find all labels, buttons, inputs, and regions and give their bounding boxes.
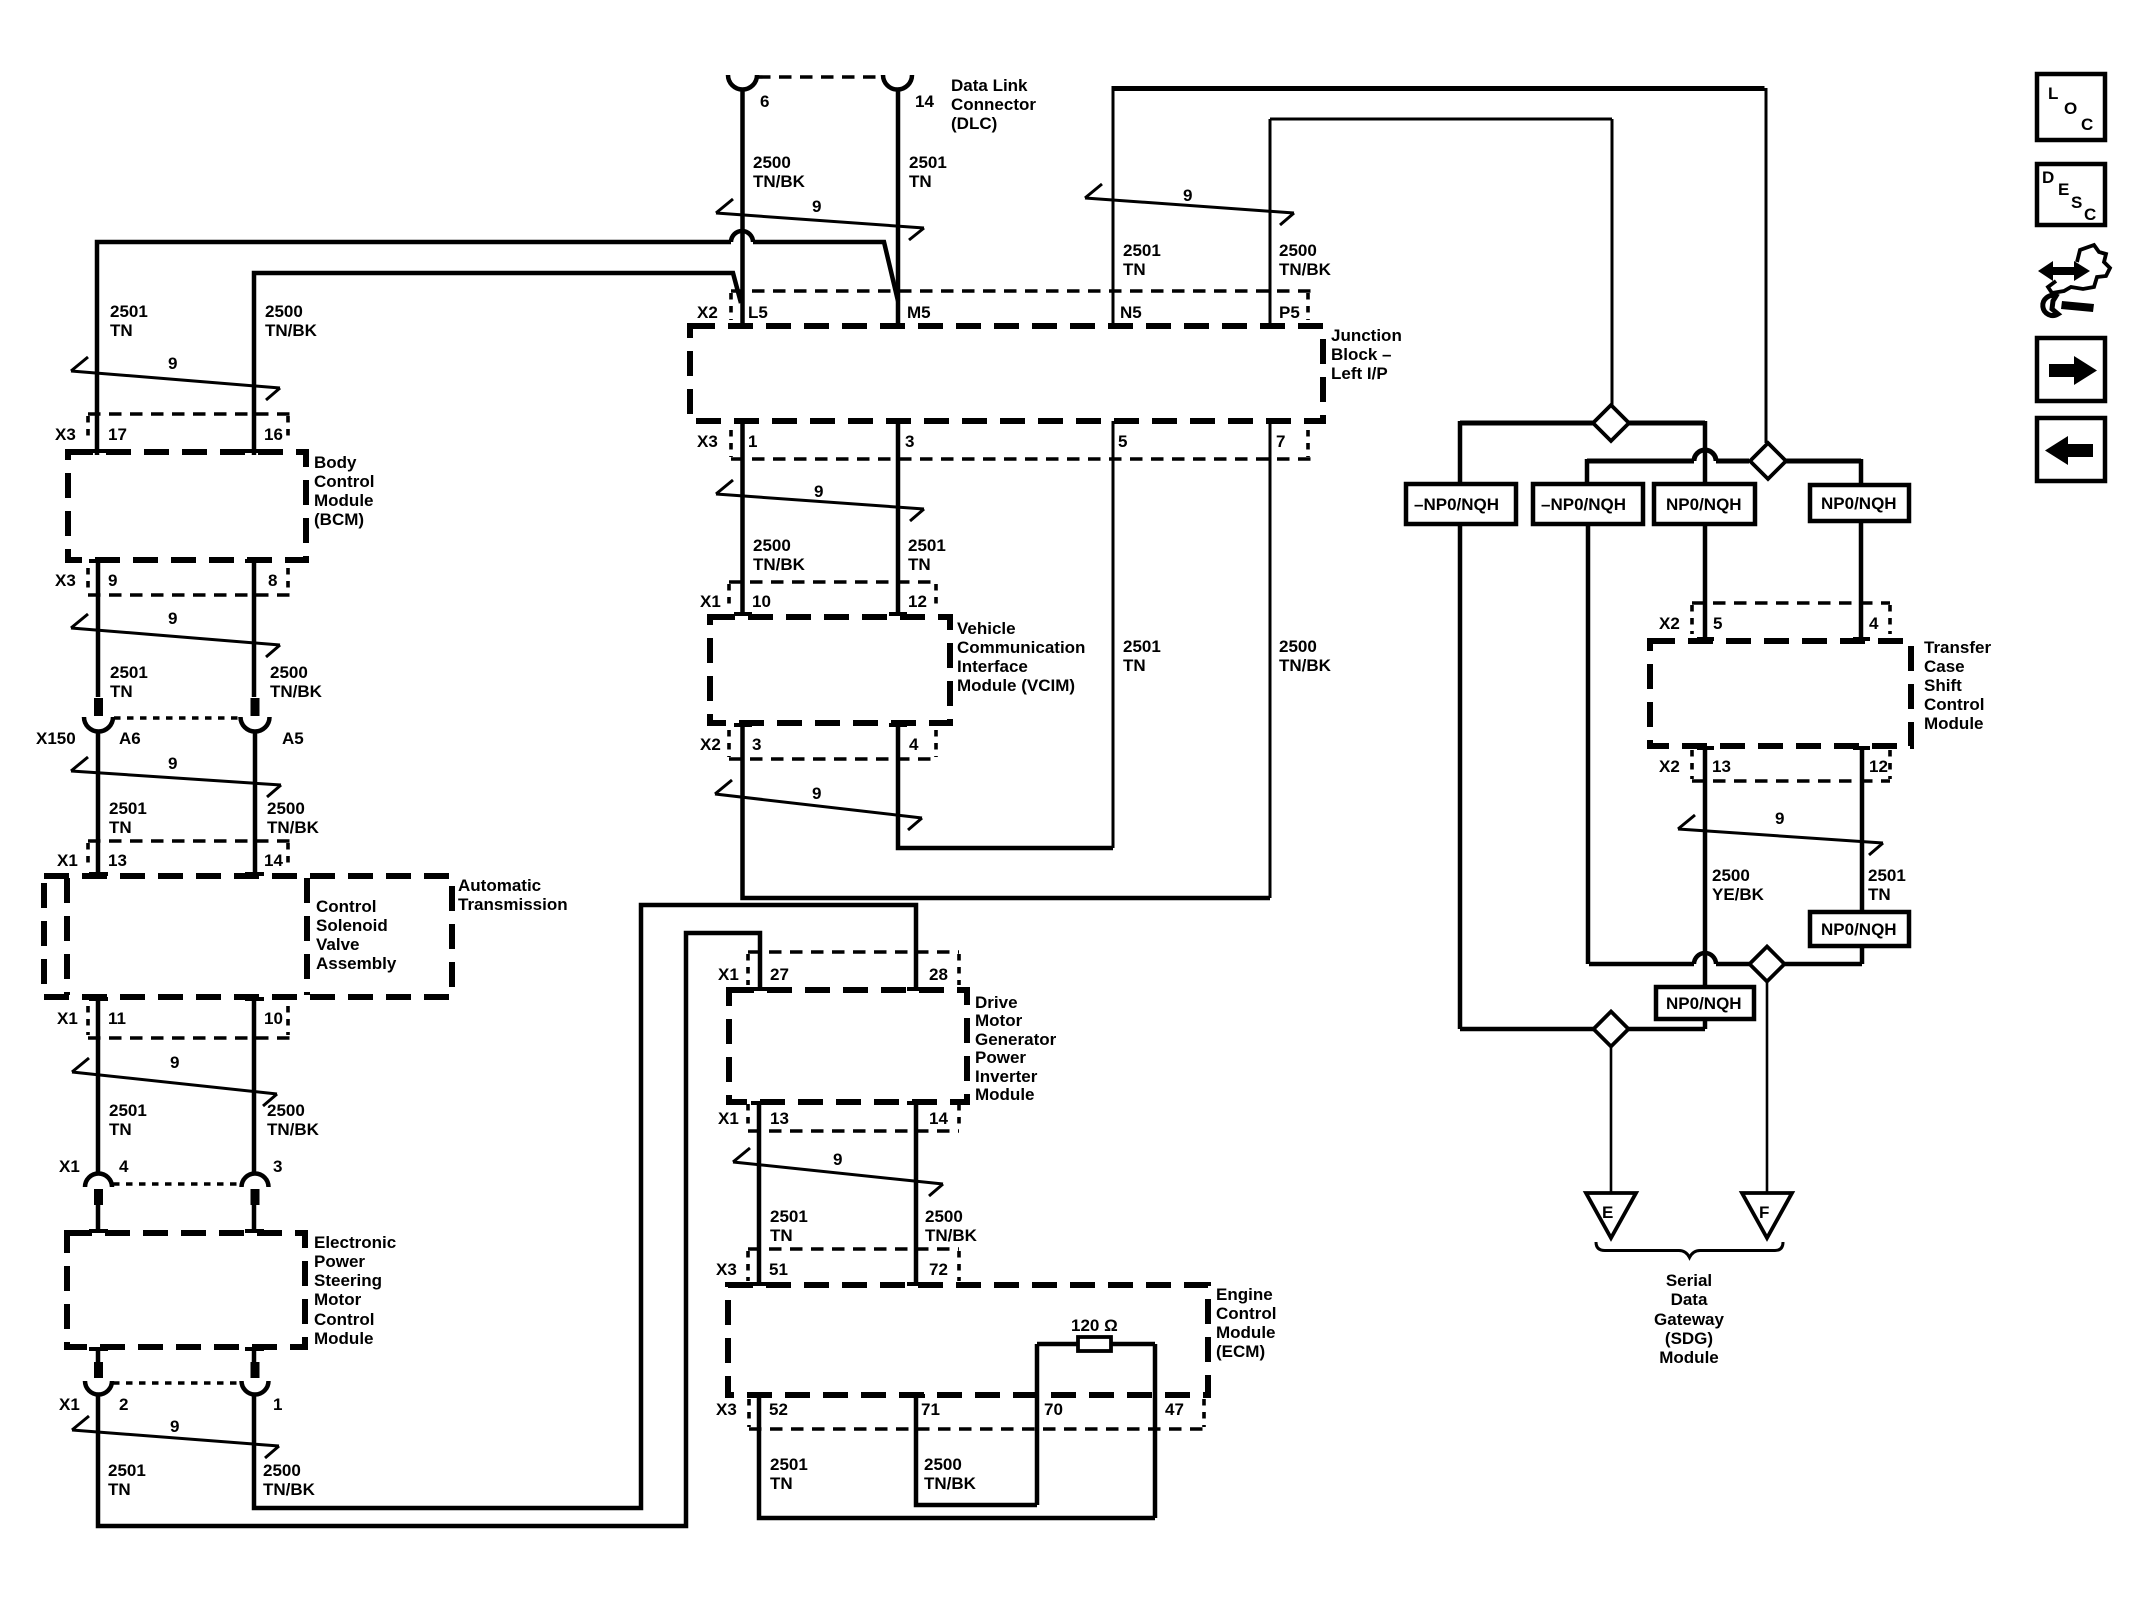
svg-text:2500: 2500 — [263, 1461, 301, 1480]
svg-text:4: 4 — [119, 1157, 129, 1176]
svg-text:14: 14 — [929, 1109, 948, 1128]
svg-text:NP0/NQH: NP0/NQH — [1666, 495, 1742, 514]
wire ECM pin 47 to resistor — [1153, 1344, 1158, 1518]
svg-text:10: 10 — [752, 592, 771, 611]
svg-text:11: 11 — [108, 1009, 126, 1028]
option box NP0/NQH (3) — [1654, 484, 1755, 524]
svg-text:F: F — [1759, 1203, 1769, 1222]
svg-text:Data Link: Data Link — [951, 76, 1028, 95]
pin 71 cap — [907, 1394, 925, 1398]
svg-text:Control: Control — [1924, 695, 1984, 714]
connector X3 row pins 52 71 70 47 (ECM bottom) — [749, 1427, 1204, 1431]
connector X150 dashed line — [114, 716, 240, 720]
svg-text:D: D — [2042, 168, 2054, 187]
wire 2500 TN/BK from inverter X1-14 to ECM X3-72 — [914, 1102, 919, 1285]
svg-text:6: 6 — [760, 92, 769, 111]
connector X3 row pins 9 8 (BCM bottom) — [88, 593, 291, 597]
wire below option box 4 to transfer case X2-4 — [1859, 521, 1864, 638]
connector X1 row pins 13 14 (inverter bottom) — [748, 1129, 959, 1133]
svg-text:Module: Module — [314, 1329, 374, 1348]
option box NP0/NQH (on 2501 TN wire) — [1810, 912, 1909, 946]
wire continues to M5 with jog — [753, 242, 898, 301]
pin 8 wire cap — [245, 559, 264, 563]
pin 28 cap — [907, 987, 925, 991]
wire 2500 TN/BK from ECM-71 to pin 70 — [916, 1396, 1037, 1505]
svg-text:14: 14 — [264, 851, 283, 870]
svg-text:71: 71 — [921, 1400, 940, 1419]
splice diamond 1 — [1593, 405, 1629, 441]
wire 2501 TN horizontal from BCM to M5 (hops over L5 wire) — [97, 242, 731, 455]
svg-text:P5: P5 — [1279, 303, 1300, 322]
pin 13 cap — [751, 1101, 769, 1105]
inline connector pin 1 female cup (opens up) — [242, 1381, 269, 1395]
svg-text:Engine: Engine — [1216, 1285, 1273, 1304]
pin 4 male stub — [94, 1189, 103, 1205]
svg-text:TN: TN — [110, 682, 133, 701]
connector X1 2/1 dashed line — [113, 1381, 240, 1385]
svg-text:52: 52 — [769, 1400, 788, 1419]
svg-text:12: 12 — [1869, 757, 1888, 776]
svg-text:X3: X3 — [716, 1400, 737, 1419]
svg-text:TN/BK: TN/BK — [924, 1474, 977, 1493]
wire 2501 TN from transfer case X2-12 down — [1860, 746, 1865, 912]
svg-text:Communication: Communication — [957, 638, 1085, 657]
inline connector X150 A6 male stub — [94, 698, 103, 716]
svg-text:O: O — [2064, 99, 2077, 118]
pin 13 cap — [1697, 746, 1714, 750]
pin 51 cap — [751, 1282, 769, 1286]
svg-text:TN/BK: TN/BK — [1279, 656, 1332, 675]
svg-text:2501: 2501 — [1123, 637, 1161, 656]
icon DESC button — [2037, 164, 2105, 225]
svg-text:3: 3 — [905, 432, 914, 451]
svg-text:47: 47 — [1165, 1400, 1184, 1419]
svg-text:1: 1 — [748, 432, 757, 451]
svg-text:TN: TN — [109, 818, 132, 837]
wire 2500 YE/BK from transfer case X2-13 down — [1703, 746, 1708, 987]
svg-text:2501: 2501 — [1123, 241, 1161, 260]
svg-text:TN/BK: TN/BK — [753, 555, 806, 574]
brace under E and F — [1596, 1242, 1783, 1258]
svg-text:Power: Power — [975, 1048, 1026, 1067]
svg-text:Module: Module — [1924, 714, 1984, 733]
wire 2501 TN from ECM-52 to bottom run — [759, 1396, 1155, 1518]
wire below option box 2 — [1586, 524, 1591, 964]
svg-text:5: 5 — [1118, 432, 1127, 451]
svg-text:2: 2 — [119, 1395, 128, 1414]
twisted pair symbol with label 9 (below X150) — [71, 757, 281, 797]
svg-text:Control: Control — [316, 897, 376, 916]
wire 2501 TN from VCIM X2-4 down — [898, 723, 1113, 848]
svg-text:9: 9 — [1775, 809, 1784, 828]
wire hop over L5 — [731, 231, 753, 242]
svg-text:14: 14 — [915, 92, 934, 111]
svg-text:2501: 2501 — [1868, 866, 1906, 885]
svg-text:X1: X1 — [59, 1395, 80, 1414]
wire 2500 TN/BK from junction X3-1 to VCIM X1-10 — [740, 421, 745, 613]
connector DLC dashed outline — [758, 75, 882, 79]
svg-text:9: 9 — [814, 482, 823, 501]
svg-text:Case: Case — [1924, 657, 1965, 676]
svg-text:Data: Data — [1671, 1290, 1708, 1309]
svg-text:Generator: Generator — [975, 1030, 1057, 1049]
wire 2501 TN top run N5 to diamond 2 riser — [1113, 86, 1765, 91]
svg-text:TN: TN — [1868, 885, 1891, 904]
svg-text:70: 70 — [1044, 1400, 1063, 1419]
wrench — [2061, 301, 2094, 312]
svg-text:2501: 2501 — [110, 302, 148, 321]
pin 12 cap — [1853, 746, 1870, 750]
twisted pair symbol with label 9 (below BCM) — [71, 614, 280, 657]
module Control Solenoid Valve Assembly — [67, 878, 307, 995]
svg-text:X3: X3 — [716, 1260, 737, 1279]
svg-text:28: 28 — [929, 965, 948, 984]
twisted pair symbol with label 9 (below inverter) — [733, 1148, 943, 1196]
off-page pointer E — [1586, 1193, 1636, 1238]
wire 2501 TN N5 riser mid — [1112, 421, 1115, 848]
svg-text:TN/BK: TN/BK — [263, 1480, 316, 1499]
svg-text:9: 9 — [170, 1417, 179, 1436]
svg-text:X1: X1 — [718, 965, 739, 984]
svg-text:–NP0/NQH: –NP0/NQH — [1414, 495, 1499, 514]
svg-text:TN: TN — [909, 172, 932, 191]
wire hop over box3 wire — [1694, 450, 1716, 461]
svg-text:2501: 2501 — [109, 799, 147, 818]
icon wiring diagram (double arrow, outline, wrench) — [2038, 261, 2090, 281]
pin caps at EPS bottom — [89, 1347, 264, 1351]
svg-text:TN: TN — [908, 555, 931, 574]
svg-text:9: 9 — [168, 609, 177, 628]
svg-text:Connector: Connector — [951, 95, 1036, 114]
inline connector X150 A5 male stub — [251, 698, 260, 716]
svg-text:Interface: Interface — [957, 657, 1028, 676]
wire below option box 3 to transfer case X2-5 — [1703, 524, 1708, 638]
svg-text:TN: TN — [1123, 260, 1146, 279]
svg-text:X1: X1 — [718, 1109, 739, 1128]
svg-text:Module: Module — [1659, 1348, 1719, 1367]
connector X2 row pins 5 4 (transfer case top) — [1692, 601, 1890, 605]
svg-text:2501: 2501 — [109, 1101, 147, 1120]
svg-text:Valve: Valve — [316, 935, 360, 954]
svg-text:Automatic: Automatic — [458, 876, 541, 895]
svg-text:Power: Power — [314, 1252, 365, 1271]
option box -NP0/NQH (1) — [1406, 484, 1516, 524]
inline connector X150 A6 female cup — [84, 717, 113, 732]
svg-text:Motor: Motor — [314, 1290, 362, 1309]
svg-text:9: 9 — [812, 784, 821, 803]
svg-text:X3: X3 — [55, 571, 76, 590]
splice segment at diamond 4 level — [1589, 962, 1862, 967]
svg-text:TN/BK: TN/BK — [267, 1120, 320, 1139]
svg-text:C: C — [2084, 205, 2096, 224]
svg-text:Control: Control — [314, 472, 374, 491]
splice diamond 4 — [1750, 947, 1785, 982]
svg-text:Junction: Junction — [1331, 326, 1402, 345]
wire below option box 1 — [1458, 524, 1463, 1029]
svg-text:Vehicle: Vehicle — [957, 619, 1016, 638]
module Engine Control Module (ECM) — [728, 1285, 1208, 1395]
svg-text:TN: TN — [1123, 656, 1146, 675]
pin 2 male stub — [94, 1362, 103, 1378]
pin 9 wire cap — [89, 559, 108, 563]
svg-text:2500: 2500 — [1712, 866, 1750, 885]
svg-text:X1: X1 — [57, 851, 78, 870]
connector DLC pin 6 terminal cup — [728, 75, 757, 90]
pin 3 cap — [734, 723, 752, 727]
svg-text:TN/BK: TN/BK — [1279, 260, 1332, 279]
svg-text:(DLC): (DLC) — [951, 114, 997, 133]
svg-text:TN/BK: TN/BK — [753, 172, 806, 191]
svg-text:TN/BK: TN/BK — [267, 818, 320, 837]
svg-text:2500: 2500 — [925, 1207, 963, 1226]
splice segment for -NP0/NQH branch (diamond 1 level) — [1460, 421, 1705, 426]
inline connector pin 3 female cup (opens down) — [242, 1174, 269, 1188]
splice segment for NP0/NQH branch (diamond 2 level) — [1587, 459, 1861, 464]
svg-text:13: 13 — [770, 1109, 789, 1128]
connector X1 row pins 13 14 (solenoid top) — [88, 839, 291, 843]
svg-text:9: 9 — [168, 754, 177, 773]
svg-text:Control: Control — [314, 1310, 374, 1329]
svg-text:13: 13 — [1712, 757, 1731, 776]
svg-text:Motor: Motor — [975, 1011, 1023, 1030]
wire 2501 TN from inverter X1-13 to ECM X3-51 — [757, 1102, 762, 1285]
svg-text:TN: TN — [770, 1474, 793, 1493]
svg-text:4: 4 — [909, 735, 919, 754]
wire 2501 TN from BCM-9 down — [96, 561, 101, 697]
svg-text:E: E — [2058, 180, 2069, 199]
svg-text:3: 3 — [273, 1157, 282, 1176]
module Vehicle Communication Interface Module (VCIM) — [710, 617, 950, 723]
option box NP0/NQH (on 2500 YE/BK wire) — [1656, 987, 1754, 1019]
option box NP0/NQH (4) — [1810, 485, 1909, 521]
svg-text:A5: A5 — [282, 729, 304, 748]
svg-text:5: 5 — [1713, 614, 1722, 633]
svg-text:8: 8 — [268, 571, 277, 590]
wire 2501 TN from junction X3-3 to VCIM X1-12 — [896, 421, 901, 613]
svg-text:2501: 2501 — [770, 1455, 808, 1474]
wire hop of diamond 4 segment over YE/BK wire — [1694, 953, 1716, 964]
wire 2501 TN from solenoid-11 down — [96, 997, 101, 1174]
pin 52 cap — [751, 1394, 769, 1398]
icon next button (right arrow) — [2037, 338, 2105, 401]
svg-text:NP0/NQH: NP0/NQH — [1821, 494, 1897, 513]
svg-text:Module (VCIM): Module (VCIM) — [957, 676, 1075, 695]
svg-text:–NP0/NQH: –NP0/NQH — [1541, 495, 1626, 514]
svg-text:Steering: Steering — [314, 1271, 382, 1290]
inline connector X150 A5 female cup — [241, 717, 270, 732]
svg-text:Gateway: Gateway — [1654, 1310, 1724, 1329]
connector X3 row pins 1 3 5 7 (junction block bottom) — [731, 457, 1311, 461]
svg-text:9: 9 — [812, 197, 821, 216]
svg-text:16: 16 — [264, 425, 283, 444]
svg-text:Transmission: Transmission — [458, 895, 568, 914]
svg-text:C: C — [2081, 115, 2093, 134]
svg-text:Left I/P: Left I/P — [1331, 364, 1388, 383]
wire to E pointer — [1610, 1047, 1613, 1194]
twisted pair symbol with label 9 (below VCIM) — [715, 780, 922, 830]
pin 1 male stub — [251, 1362, 260, 1378]
svg-text:NP0/NQH: NP0/NQH — [1821, 920, 1897, 939]
svg-text:13: 13 — [108, 851, 127, 870]
module Automatic Transmission outline — [44, 876, 452, 997]
svg-text:(ECM): (ECM) — [1216, 1342, 1265, 1361]
connector X1 row pins 10 12 (VCIM top) — [729, 580, 936, 584]
connector X2 row pins 13 12 (transfer case bottom) — [1692, 779, 1890, 783]
wire 2500 TN/BK top run P5 to diamond 1 riser — [1270, 119, 1612, 406]
twisted pair symbol with label 9 (below EPS) — [72, 1416, 279, 1458]
resistor leads — [1037, 1342, 1155, 1347]
svg-text:X1: X1 — [57, 1009, 78, 1028]
svg-text:2500: 2500 — [267, 1101, 305, 1120]
svg-text:2501: 2501 — [110, 663, 148, 682]
connector X2 row pins 3 4 (VCIM bottom) — [729, 757, 936, 761]
connector X3 row pins 51 72 (ECM top) — [748, 1247, 959, 1251]
pin 13 wire cap — [89, 872, 108, 876]
svg-text:9: 9 — [833, 1150, 842, 1169]
svg-text:2500: 2500 — [924, 1455, 962, 1474]
svg-text:NP0/NQH: NP0/NQH — [1666, 994, 1742, 1013]
svg-text:L5: L5 — [748, 303, 768, 322]
svg-text:2501: 2501 — [909, 153, 947, 172]
svg-text:Block –: Block – — [1331, 345, 1391, 364]
svg-text:A6: A6 — [119, 729, 141, 748]
svg-text:TN: TN — [108, 1480, 131, 1499]
svg-text:YE/BK: YE/BK — [1712, 885, 1765, 904]
pin 14 cap — [907, 1101, 925, 1105]
svg-text:2500: 2500 — [753, 153, 791, 172]
svg-text:10: 10 — [264, 1009, 283, 1028]
svg-text:12: 12 — [908, 592, 927, 611]
svg-text:Electronic: Electronic — [314, 1233, 396, 1252]
wire 2500 TN/BK from VCIM X2-3 down — [743, 723, 1271, 898]
pin 11 wire cap — [89, 997, 108, 1001]
svg-text:Transfer: Transfer — [1924, 638, 1991, 657]
svg-text:Module: Module — [314, 491, 374, 510]
svg-text:51: 51 — [769, 1260, 788, 1279]
svg-text:X1: X1 — [700, 592, 721, 611]
svg-text:L: L — [2048, 84, 2058, 103]
svg-text:72: 72 — [929, 1260, 948, 1279]
pin caps at EPS top — [89, 1229, 264, 1233]
module Transfer Case Shift Control Module — [1650, 641, 1911, 746]
svg-text:Inverter: Inverter — [975, 1067, 1038, 1086]
module Electronic Power Steering Motor Control Module — [67, 1233, 305, 1347]
svg-text:3: 3 — [752, 735, 761, 754]
svg-text:2501: 2501 — [908, 536, 946, 555]
pin 5 cap — [1697, 637, 1714, 641]
svg-text:9: 9 — [168, 354, 177, 373]
svg-text:9: 9 — [108, 571, 117, 590]
option box -NP0/NQH (2) — [1533, 484, 1643, 524]
svg-text:X150: X150 — [36, 729, 76, 748]
pin 10 cap — [734, 612, 752, 616]
svg-text:X2: X2 — [700, 735, 721, 754]
svg-text:Module: Module — [975, 1085, 1035, 1104]
icon back button (left arrow) — [2037, 418, 2105, 481]
twisted pair symbol with label 9 (below solenoid) — [72, 1058, 277, 1106]
off-page pointer F — [1742, 1193, 1792, 1238]
svg-text:7: 7 — [1276, 432, 1285, 451]
svg-text:Serial: Serial — [1666, 1271, 1712, 1290]
wire stubs below EPS — [98, 1347, 254, 1362]
splice segment at diamond 3 level — [1460, 1027, 1705, 1032]
twisted pair symbol with label 9 (DLC wires) — [716, 199, 924, 240]
connector X1 row pins 27 28 (inverter top) — [748, 950, 959, 954]
pin 3 male stub — [251, 1189, 260, 1205]
connector X1 row pins 11 10 (solenoid bottom) — [88, 1036, 291, 1040]
pin 12 cap — [889, 612, 907, 616]
twisted pair symbol with label 9 (below transfer case) — [1678, 815, 1883, 855]
svg-text:2500: 2500 — [267, 799, 305, 818]
pin 72 cap — [907, 1282, 925, 1286]
svg-text:Solenoid: Solenoid — [316, 916, 388, 935]
pin 4 cap — [889, 723, 907, 727]
wire 2501 TN bottom run to riser — [98, 933, 760, 1526]
pin 14 wire cap — [245, 872, 264, 876]
module Drive Motor Generator Power Inverter Module — [729, 990, 967, 1102]
svg-text:TN/BK: TN/BK — [925, 1226, 978, 1245]
twisted pair symbol with label 9 (below junction block) — [716, 480, 924, 521]
pin 16 wire cap — [245, 449, 264, 453]
connector X2 row pins L5 M5 N5 P5 (junction block top) — [731, 289, 1311, 293]
svg-text:(SDG): (SDG) — [1665, 1329, 1713, 1348]
module Junction Block - Left I/P — [690, 326, 1323, 421]
svg-text:17: 17 — [108, 425, 127, 444]
wire ECM pin 70 to resistor — [1035, 1344, 1040, 1505]
svg-text:2500: 2500 — [1279, 637, 1317, 656]
svg-text:TN: TN — [110, 321, 133, 340]
icon LOC button — [2037, 74, 2105, 140]
connector X3 row pins 17 16 (BCM top) — [88, 412, 291, 416]
svg-text:2501: 2501 — [770, 1207, 808, 1226]
svg-text:2500: 2500 — [1279, 241, 1317, 260]
svg-text:X2: X2 — [1659, 757, 1680, 776]
inline connector pin 4 female cup (opens down) — [85, 1174, 112, 1188]
svg-text:X1: X1 — [59, 1157, 80, 1176]
svg-text:4: 4 — [1869, 614, 1879, 633]
splice diamond 2 — [1750, 443, 1786, 479]
wire 2500 TN/BK below X150 — [253, 731, 258, 875]
svg-text:Control: Control — [1216, 1304, 1276, 1323]
connector X1 4/3 dashed line — [113, 1182, 240, 1186]
svg-text:2500: 2500 — [753, 536, 791, 555]
svg-text:S: S — [2071, 193, 2082, 212]
svg-text:TN: TN — [770, 1226, 793, 1245]
svg-text:2500: 2500 — [270, 663, 308, 682]
svg-text:(BCM): (BCM) — [314, 510, 364, 529]
twisted pair symbol with label 9 (BCM top) — [71, 357, 280, 400]
svg-text:Assembly: Assembly — [316, 954, 397, 973]
svg-text:27: 27 — [770, 965, 789, 984]
splice diamond 3 — [1594, 1012, 1629, 1047]
svg-text:9: 9 — [1183, 186, 1192, 205]
wire 2500 TN/BK horizontal from BCM to L5 with jog — [254, 273, 741, 455]
svg-text:Shift: Shift — [1924, 676, 1962, 695]
svg-text:M5: M5 — [907, 303, 931, 322]
svg-text:E: E — [1602, 1203, 1613, 1222]
pin 17 wire cap — [89, 449, 108, 453]
svg-text:X2: X2 — [1659, 614, 1680, 633]
inline connector pin 2 female cup (opens up) — [85, 1381, 112, 1395]
pin 10 wire cap — [245, 997, 264, 1001]
wire below option box to splice segment 3 — [1703, 1019, 1708, 1029]
wire 2500 TN/BK from DLC-6 to junction L5 — [740, 89, 745, 326]
svg-text:X3: X3 — [55, 425, 76, 444]
wire stubs into EPS module — [98, 1205, 254, 1232]
svg-text:2501: 2501 — [108, 1461, 146, 1480]
svg-text:9: 9 — [170, 1053, 179, 1072]
svg-text:Body: Body — [314, 453, 357, 472]
